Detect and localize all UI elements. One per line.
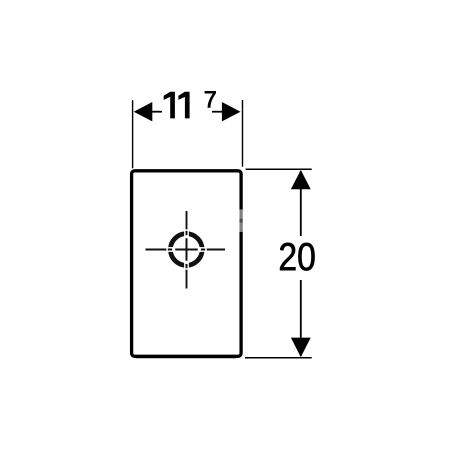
height dimension text 20 [280,243,314,271]
width dimension line segments [151,111,223,113]
width dimension superscript 7 [205,91,216,107]
center mark ring gaps (white) [166,229,207,270]
width dimension: left extension line [132,100,134,168]
center mark ring [170,234,202,266]
width dimension text 11 (digit 1 #2) [178,92,189,119]
center mark dashes [168,231,205,268]
width dimension right arrow [222,102,241,121]
height dimension: top extension line [246,168,312,170]
plate outline [132,171,242,358]
height dimension line segments [300,171,302,356]
width dimension: right extension line [242,100,244,167]
width dimension text 11 (digit 1 #1) [164,92,175,119]
center mark inner cross [175,238,198,261]
height dimension: bottom extension line [245,357,312,359]
height dimension bottom arrow [291,338,311,358]
watermark lightening over plate right edge [236,214,246,227]
height dimension top arrow [291,170,311,189]
width dimension left arrow [134,102,153,121]
center mark long centerlines [146,211,226,289]
